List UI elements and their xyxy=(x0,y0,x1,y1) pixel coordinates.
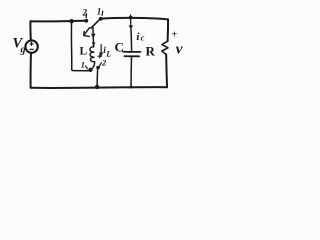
switch S1 motion arrow xyxy=(84,28,90,37)
inductor current iL arrow xyxy=(100,45,102,54)
wire left vertical below source xyxy=(30,53,32,88)
capacitor current arrow xyxy=(130,15,132,26)
svg-text:2: 2 xyxy=(82,7,88,17)
wire from switch S2 down to bottom rail xyxy=(96,68,99,87)
voltage source plus sign xyxy=(30,42,33,45)
svg-text:R: R xyxy=(146,44,156,59)
inductor bottom hook xyxy=(91,62,94,70)
plus mark near switch S2 xyxy=(98,54,102,58)
svg-text:v: v xyxy=(176,42,183,58)
voltage source Vg circle xyxy=(25,40,37,52)
switch S1 blade xyxy=(91,19,100,28)
switch S2 shared contact dot (hook end) xyxy=(88,68,92,72)
node dot capacitor bottom xyxy=(130,86,133,89)
svg-text:1: 1 xyxy=(97,6,102,16)
switch S1 contact 1 dot xyxy=(99,17,103,21)
svg-text:c: c xyxy=(141,32,145,42)
node junction dot on bottom rail xyxy=(95,85,99,89)
svg-text:+: + xyxy=(172,30,178,41)
wire top-left horizontal from source to switch contact 2 xyxy=(31,20,86,23)
switch S2 contact 2 tick xyxy=(99,63,101,66)
capacitor C bottom plate xyxy=(125,55,140,57)
wire bottom horizontal xyxy=(31,86,167,89)
switch S1 contact 1 tick xyxy=(101,11,104,15)
resistor R zigzag xyxy=(162,41,168,54)
capacitor bottom lead xyxy=(130,57,133,87)
capacitor top lead xyxy=(130,29,133,51)
switch S2 contact 1 tick xyxy=(86,66,88,69)
svg-text:L: L xyxy=(80,46,88,58)
node junction dot for capacitor branch xyxy=(129,16,133,20)
inductor L coil xyxy=(90,47,95,62)
inductor current arrowhead on lead xyxy=(92,34,96,38)
wire right vertical below resistor xyxy=(165,55,168,88)
inductor branch top lead xyxy=(92,27,95,47)
wire left vertical above source xyxy=(29,21,31,40)
wire top-right horizontal from contact 1 to top-right corner xyxy=(101,18,168,20)
capacitor C top plate xyxy=(123,51,141,53)
svg-text:g: g xyxy=(20,45,26,56)
switch S1 contact 2 dot xyxy=(84,19,88,23)
svg-text:1: 1 xyxy=(81,60,85,70)
voltage source minus sign xyxy=(30,48,33,50)
small ink blob on lead xyxy=(92,43,95,46)
svg-text:C: C xyxy=(115,40,124,55)
wire from top junction down to switch S2 contact 1 xyxy=(71,21,88,70)
wire right vertical above resistor xyxy=(167,19,169,41)
svg-text:2: 2 xyxy=(101,57,107,67)
switch S2 contact 2 dot xyxy=(96,66,100,70)
switch S1 contact 2 tick xyxy=(85,14,87,18)
node junction dot on top wire xyxy=(69,19,73,23)
